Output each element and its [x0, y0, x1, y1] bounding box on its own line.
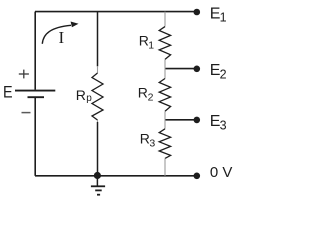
node E1 terminal dot [194, 9, 201, 16]
battery E plates [15, 91, 55, 98]
svg-text:3: 3 [149, 137, 155, 149]
resistor R1 lead bottom [164, 59, 166, 68]
resistor Rp lead bottom [97, 120, 99, 122]
svg-text:I: I [59, 28, 65, 47]
node E3 terminal dot [194, 117, 201, 124]
wire Rp branch top vertical [97, 12, 99, 67]
resistor R3 zigzag [159, 129, 170, 159]
wire left vertical lower (battery - to bottom wire) [34, 97, 36, 176]
svg-text:1: 1 [148, 39, 154, 51]
resistor R1 zigzag [159, 27, 170, 60]
wire E3 tap horizontal [165, 119, 197, 121]
resistor Rp lead top [97, 66, 99, 73]
resistor R3 lead top [164, 120, 166, 129]
junction dot at ground [94, 172, 101, 179]
resistor R3 lead bottom [164, 158, 166, 175]
svg-text:2: 2 [220, 67, 227, 81]
battery minus sign [22, 112, 31, 114]
wire top horizontal from battery branch to E1 terminal [35, 11, 197, 13]
wire E2 tap horizontal [165, 68, 197, 70]
svg-text:3: 3 [220, 119, 227, 133]
node E2 terminal dot [194, 66, 201, 73]
wire bottom horizontal from battery to 0V terminal [35, 175, 197, 177]
svg-text:p: p [86, 93, 92, 104]
wire left vertical upper (battery + to top wire) [34, 12, 36, 90]
battery plus sign [19, 70, 29, 79]
svg-text:R: R [76, 87, 86, 103]
svg-text:1: 1 [220, 11, 227, 25]
resistor R1 lead top [164, 12, 166, 27]
node 0V terminal dot [194, 173, 201, 180]
resistor R2 zigzag [159, 79, 170, 112]
ground [91, 176, 105, 195]
svg-text:2: 2 [148, 91, 154, 103]
svg-text:0 V: 0 V [210, 164, 233, 181]
wire Rp branch bottom vertical to ground junction [97, 122, 99, 176]
resistor R2 lead top [164, 69, 166, 79]
svg-text:R: R [138, 84, 148, 100]
resistor Rp zigzag [92, 73, 103, 120]
current arrow [42, 25, 71, 44]
resistor R2 lead bottom [164, 111, 166, 120]
svg-text:E: E [3, 83, 13, 101]
